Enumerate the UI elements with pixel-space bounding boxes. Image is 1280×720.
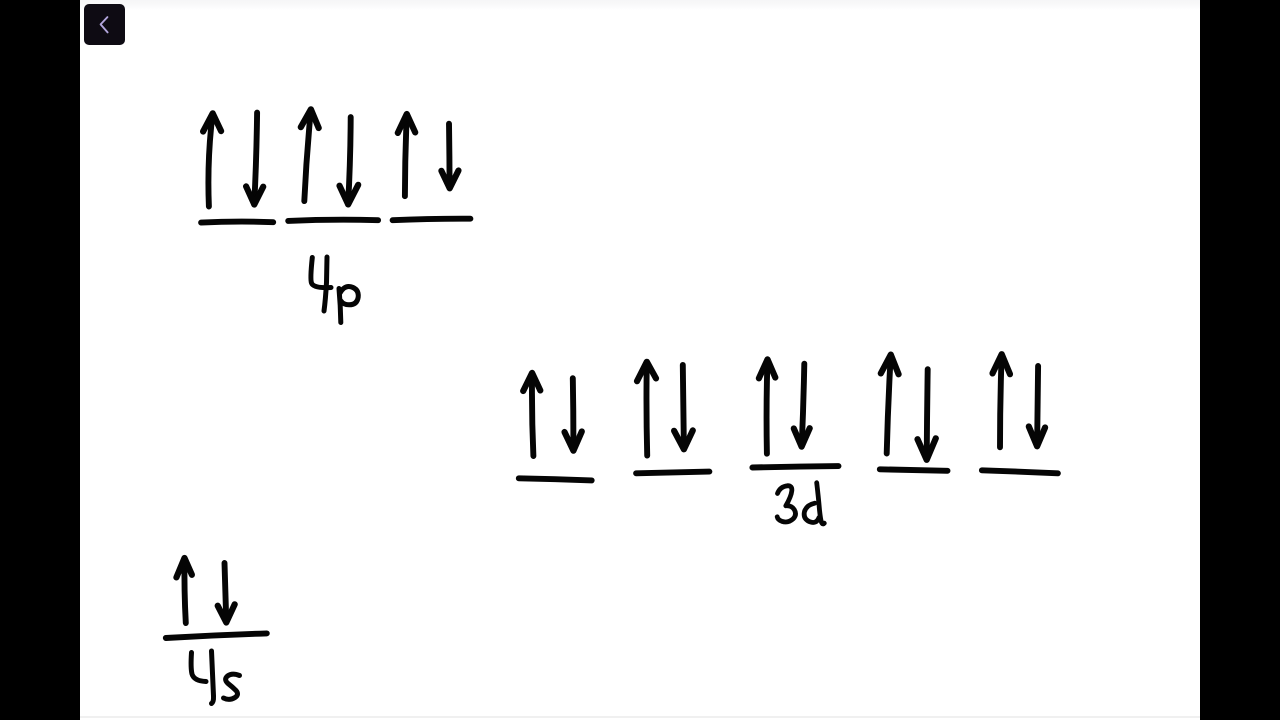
3d orbital 4 down-spin arrow	[918, 369, 936, 460]
back chevron icon	[101, 17, 108, 32]
3d orbital 2 level line	[636, 472, 709, 474]
4p orbital 1 level line	[201, 222, 273, 223]
3d orbital 5 down-spin arrow	[1029, 366, 1045, 446]
3d orbital 2 down-spin arrow	[674, 365, 693, 449]
4p orbital 2 up-spin arrow	[301, 109, 319, 201]
3d orbital 5 level line	[982, 470, 1058, 473]
3d orbital 4 level line	[880, 469, 948, 471]
3d orbital 3 up-spin arrow	[759, 359, 775, 453]
3d orbital 1 level line	[519, 478, 592, 480]
3d orbital 1 down-spin arrow	[565, 378, 582, 451]
4p orbital 2 level line	[288, 220, 378, 221]
left letterbox bar	[0, 0, 80, 720]
4s orbital level line	[166, 633, 267, 638]
4s orbital up-spin arrow	[176, 558, 192, 623]
back button	[84, 4, 125, 45]
4p orbital 2 down-spin arrow	[340, 117, 359, 204]
3d orbital 1 up-spin arrow	[523, 373, 540, 456]
4s orbital down-spin arrow	[218, 563, 235, 623]
top light strip	[80, 0, 1200, 10]
3d orbital 3 level line	[752, 466, 838, 467]
4p orbital 3 level line	[393, 219, 471, 221]
label 4s	[191, 651, 239, 704]
bottom faint divider line	[80, 716, 1200, 718]
3d orbital 5 up-spin arrow	[993, 354, 1011, 447]
4p orbital 3 down-spin arrow	[441, 124, 458, 189]
label 4p	[311, 257, 358, 323]
4p orbital 1 down-spin arrow	[246, 113, 263, 205]
4p orbital 3 up-spin arrow	[398, 114, 415, 196]
3d orbital 4 up-spin arrow	[881, 355, 899, 454]
right letterbox bar	[1200, 0, 1280, 720]
3d orbital 3 down-spin arrow	[794, 364, 810, 447]
label 3d	[777, 483, 824, 524]
4p orbital 1 up-spin arrow	[203, 113, 221, 206]
3d orbital 2 up-spin arrow	[637, 362, 656, 456]
